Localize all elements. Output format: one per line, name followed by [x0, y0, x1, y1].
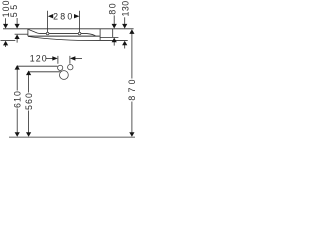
svg-text:870: 870 [127, 76, 137, 100]
svg-text:280: 280 [53, 11, 74, 21]
svg-text:80: 80 [107, 2, 117, 15]
svg-text:130: 130 [120, 0, 130, 16]
svg-text:560: 560 [24, 92, 34, 110]
svg-text:55: 55 [9, 2, 19, 17]
svg-text:610: 610 [12, 90, 22, 108]
svg-text:120: 120 [30, 53, 48, 63]
